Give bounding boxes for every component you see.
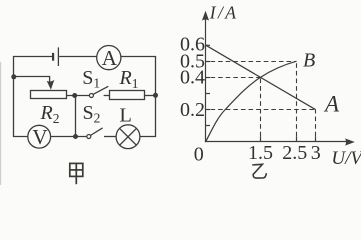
svg-text:0.4: 0.4 xyxy=(180,67,205,89)
svg-text:3: 3 xyxy=(311,142,321,164)
svg-text:A: A xyxy=(323,92,340,117)
svg-text:B: B xyxy=(303,50,315,72)
svg-text:A: A xyxy=(102,46,118,70)
svg-text:2.5: 2.5 xyxy=(282,142,307,164)
svg-text:U/V: U/V xyxy=(331,148,361,169)
svg-text:0: 0 xyxy=(194,144,204,166)
svg-text:0.2: 0.2 xyxy=(180,99,205,121)
svg-text:1.5: 1.5 xyxy=(248,142,273,164)
svg-text:V: V xyxy=(32,125,47,149)
svg-text:I/A: I/A xyxy=(209,2,239,22)
svg-text:L: L xyxy=(119,105,132,127)
